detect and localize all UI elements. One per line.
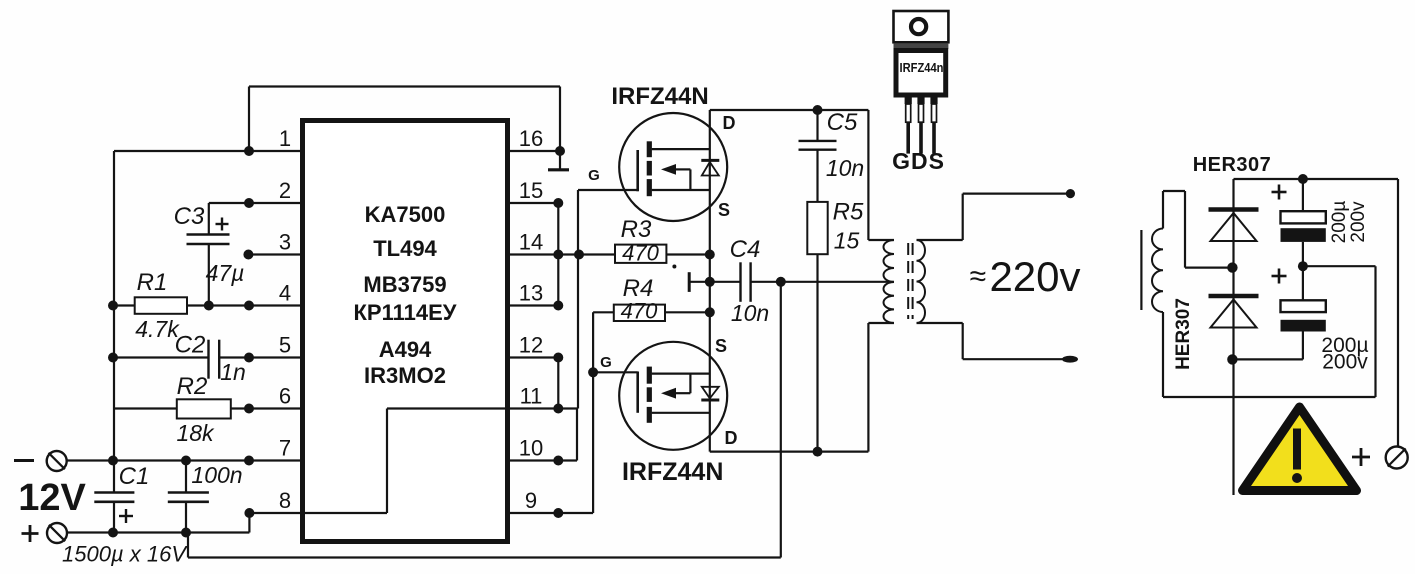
svg-text:MB3759: MB3759 [363,272,446,297]
svg-text:100n: 100n [191,462,242,488]
svg-text:A494: A494 [379,337,432,362]
svg-text:200v: 200v [1348,201,1369,243]
svg-text:10: 10 [519,436,543,461]
svg-text:9: 9 [525,488,537,513]
svg-text:HER307: HER307 [1193,154,1272,176]
svg-text:D: D [725,428,738,448]
svg-text:КР1114ЕУ: КР1114ЕУ [354,300,457,325]
svg-text:D: D [723,113,736,133]
svg-text:13: 13 [519,281,543,306]
svg-text:1: 1 [279,126,291,151]
svg-text:47µ: 47µ [206,260,245,286]
svg-text:3: 3 [279,230,291,255]
svg-text:S: S [715,336,727,356]
svg-text:220v: 220v [989,253,1080,300]
svg-text:IRFZ44n: IRFZ44n [900,60,944,75]
svg-text:IRFZ44N: IRFZ44N [622,458,723,486]
svg-text:C2: C2 [175,332,206,359]
svg-text:C1: C1 [119,463,150,490]
svg-text:12: 12 [519,333,543,358]
svg-text:GDS: GDS [892,148,945,174]
svg-text:470: 470 [622,241,659,266]
svg-text:14: 14 [519,230,543,255]
svg-text:4.7k: 4.7k [135,316,180,342]
svg-text:R5: R5 [833,199,864,226]
svg-text:HER307: HER307 [1173,298,1194,370]
svg-text:1500µ x 16V: 1500µ x 16V [62,542,188,567]
svg-text:15: 15 [519,178,543,203]
svg-text:200µ: 200µ [1329,201,1350,244]
svg-text:15: 15 [834,228,860,254]
svg-text:TL494: TL494 [373,236,437,261]
svg-text:KA7500: KA7500 [365,202,446,227]
svg-text:12V: 12V [18,477,86,519]
svg-text:1n: 1n [220,359,246,385]
svg-text:R2: R2 [177,373,208,400]
svg-text:C3: C3 [174,203,205,230]
svg-text:2: 2 [279,178,291,203]
svg-text:10n: 10n [731,300,769,326]
svg-text:470: 470 [621,299,658,324]
svg-text:6: 6 [279,384,291,409]
svg-text:G: G [600,354,612,371]
svg-text:R1: R1 [137,269,168,296]
svg-text:IR3MO2: IR3MO2 [364,363,446,388]
svg-text:7: 7 [279,436,291,461]
svg-text:S: S [718,200,730,220]
svg-text:G: G [588,167,600,184]
svg-text:IRFZ44N: IRFZ44N [611,83,708,110]
svg-text:18k: 18k [176,420,215,446]
svg-text:16: 16 [519,126,543,151]
svg-text:C5: C5 [827,109,858,136]
svg-text:8: 8 [279,488,291,513]
svg-text:≈: ≈ [970,260,986,293]
svg-text:200v: 200v [1322,351,1368,374]
svg-text:4: 4 [279,281,291,306]
svg-text:11: 11 [520,384,543,409]
svg-text:R3: R3 [621,216,652,243]
svg-text:10n: 10n [826,155,864,181]
svg-text:C4: C4 [730,236,761,263]
svg-text:5: 5 [279,333,291,358]
